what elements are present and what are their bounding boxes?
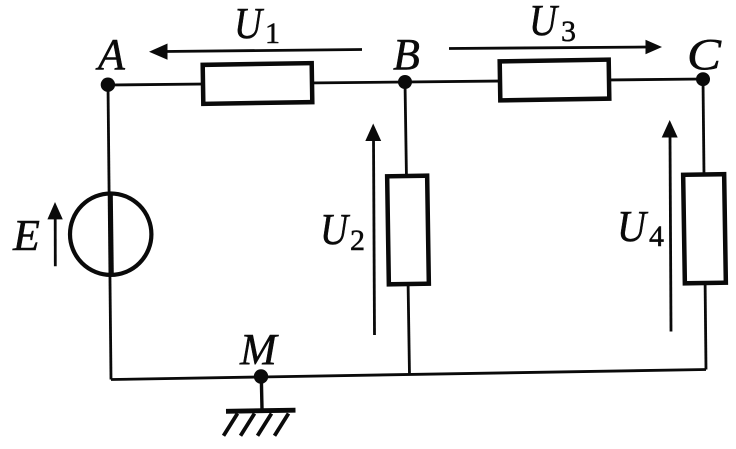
resistor R2 below B [387, 176, 429, 285]
svg-text:4: 4 [649, 220, 664, 253]
svg-text:U: U [617, 202, 649, 251]
arrow U4 (points up) [670, 135, 671, 332]
node C [696, 72, 710, 86]
source E internal bar [111, 194, 112, 276]
arrow U3 (points right) [449, 47, 648, 49]
ground hatch 2 [241, 414, 255, 436]
wire top A-B-C [108, 79, 703, 85]
ground bar [226, 408, 296, 414]
ground stub wire at M [260, 377, 264, 410]
svg-text:B: B [393, 30, 420, 79]
arrow U2 (points up) [374, 138, 375, 335]
wire left vertical A to bottom [108, 85, 111, 380]
source E circle [70, 194, 151, 275]
resistor R1 between A and B [203, 63, 313, 104]
resistor R4 below C [683, 174, 726, 283]
svg-text:E: E [12, 211, 40, 260]
svg-text:U: U [234, 0, 265, 48]
svg-text:U: U [529, 0, 560, 45]
wire bottom [111, 370, 706, 380]
ground hatch 3 [258, 414, 272, 436]
svg-text:2: 2 [350, 224, 365, 257]
ground hatch 4 [275, 414, 289, 436]
svg-text:C: C [687, 30, 722, 79]
resistor R3 between B and C [500, 60, 610, 101]
svg-text:3: 3 [561, 15, 576, 48]
node M [254, 369, 268, 383]
ground hatch 1 [224, 414, 238, 436]
wire C vertical [703, 79, 706, 370]
wire B vertical [405, 82, 410, 376]
svg-text:1: 1 [265, 17, 280, 50]
arrow U1 (points left) [164, 50, 362, 52]
node A [101, 78, 115, 92]
arrow E (points up) [54, 216, 57, 266]
svg-text:M: M [239, 325, 279, 374]
svg-text:U: U [320, 205, 351, 254]
svg-text:A: A [95, 30, 126, 79]
node B [398, 75, 412, 89]
